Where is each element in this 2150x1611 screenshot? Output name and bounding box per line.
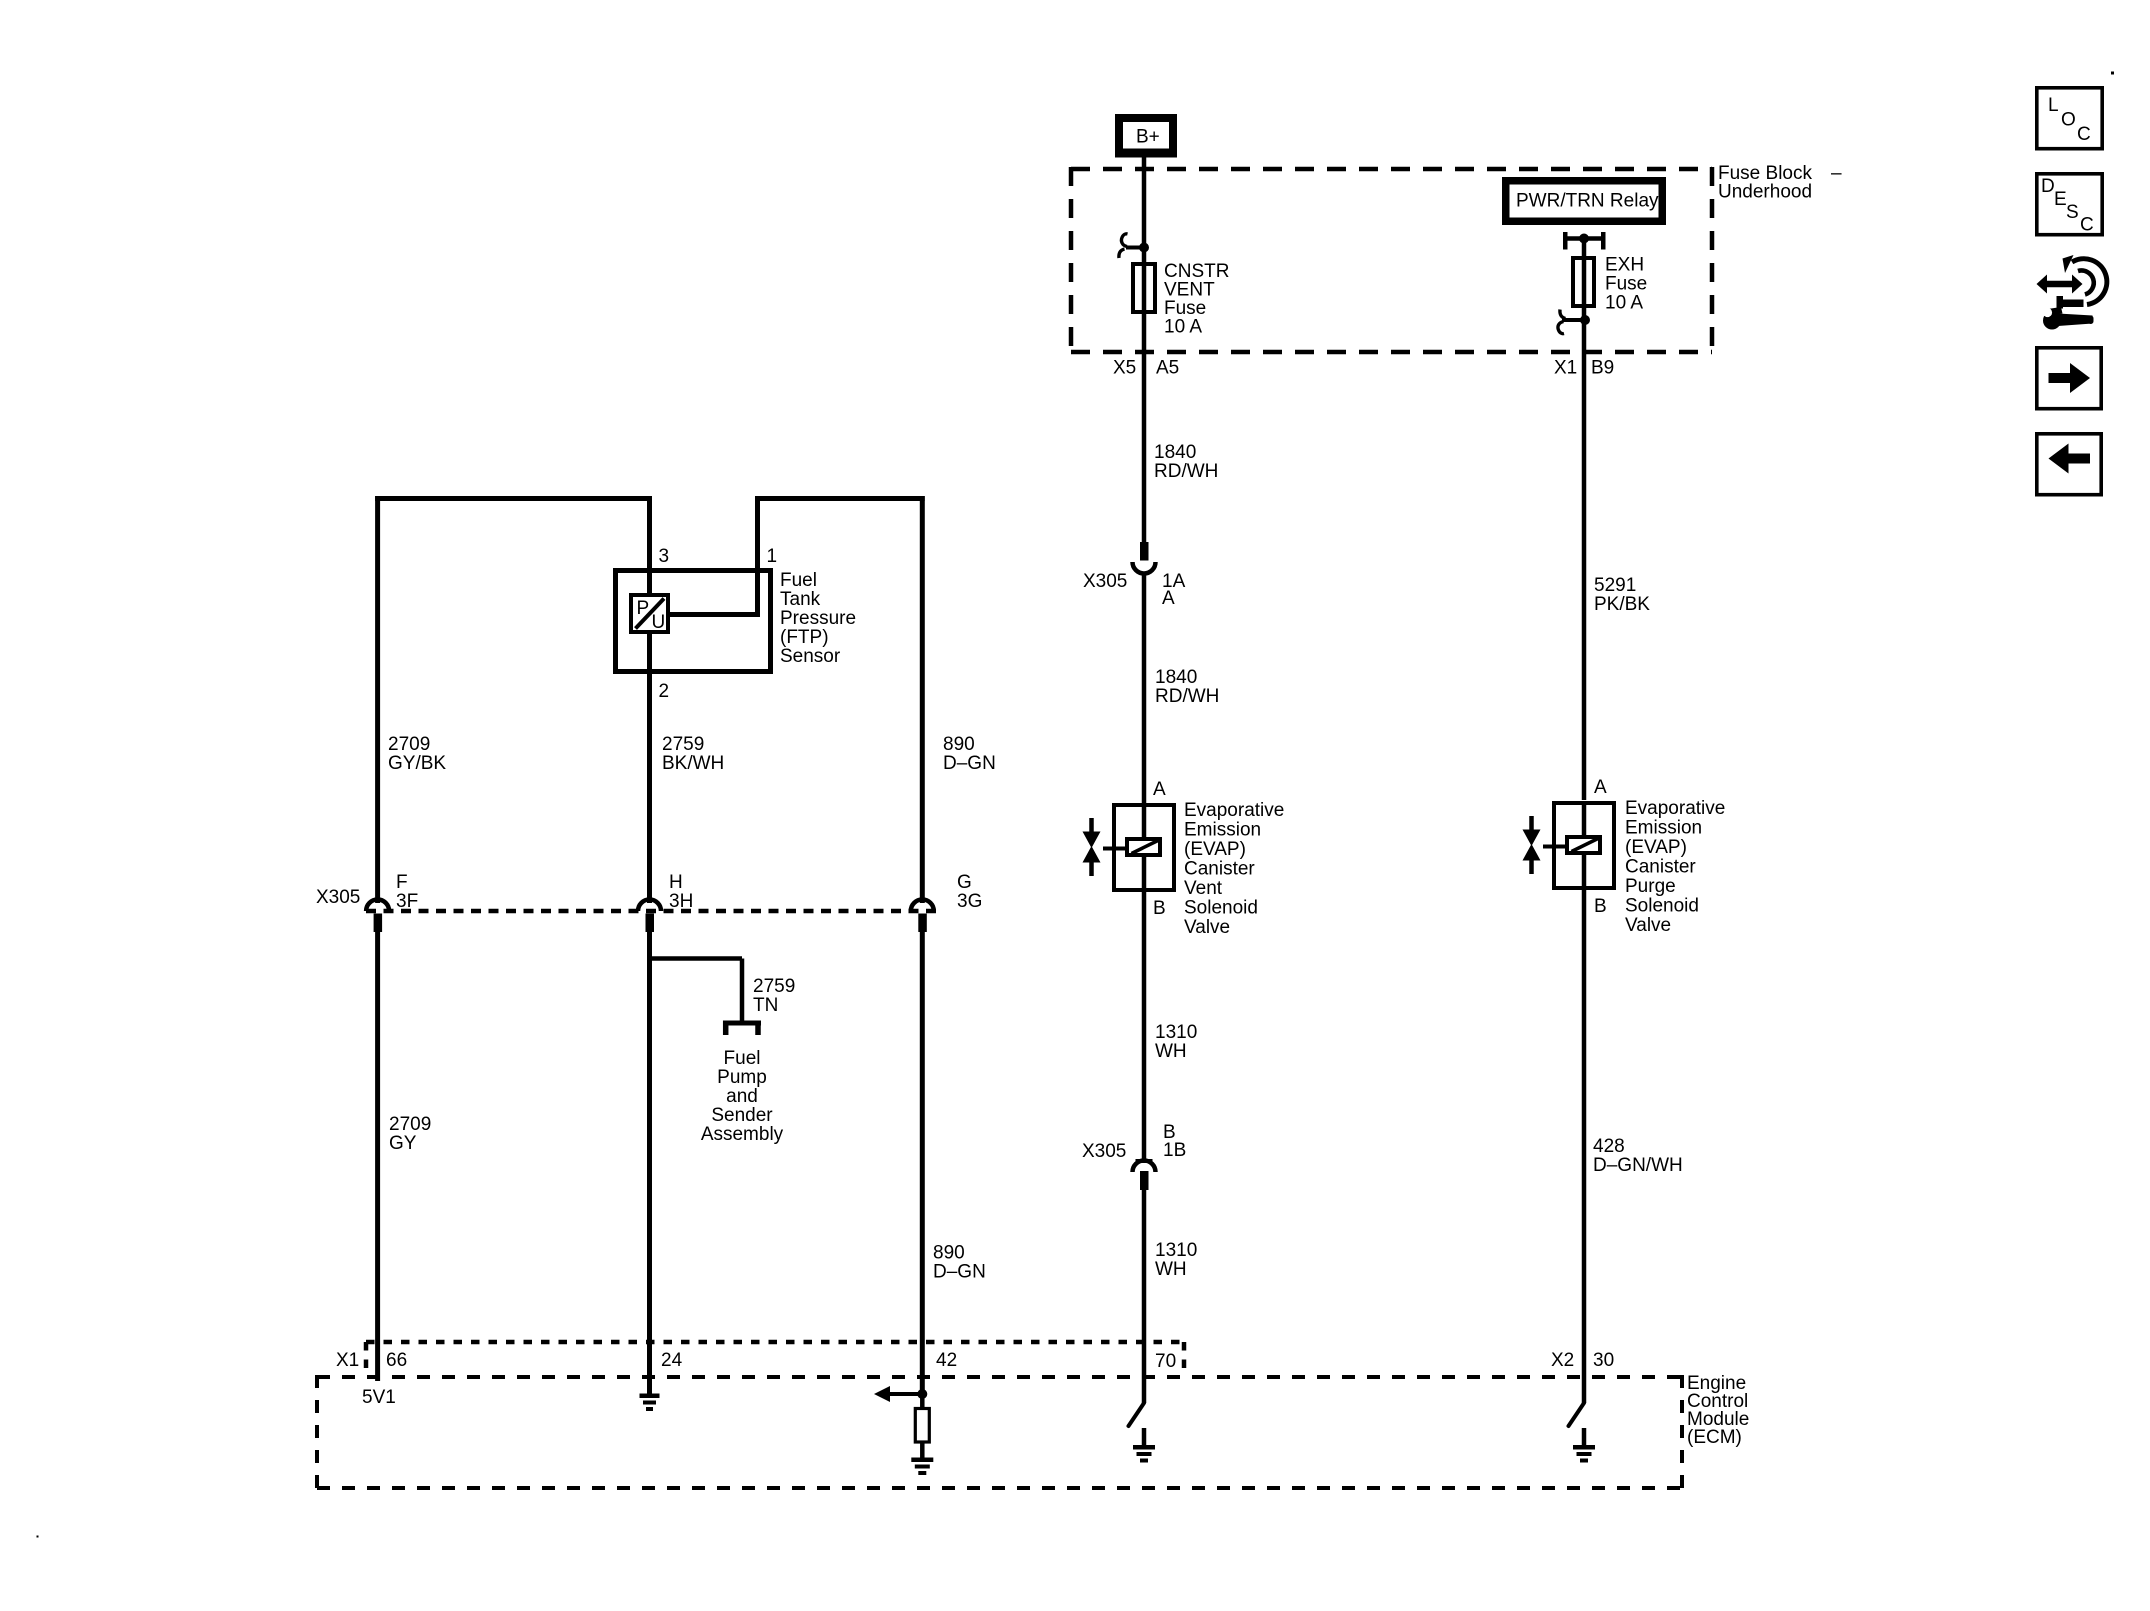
svg-text:X305: X305 — [1083, 571, 1127, 592]
wire label 1840 RD/WH lower — [1155, 667, 1219, 707]
svg-text:L: L — [2048, 95, 2059, 116]
svg-text:2709: 2709 — [389, 1114, 431, 1135]
wire label 5291 PK/BK — [1594, 575, 1650, 615]
label X5 A5 — [1113, 358, 1179, 379]
svg-text:B: B — [1594, 896, 1607, 917]
svg-text:Assembly: Assembly — [701, 1124, 784, 1145]
wire fuse to X5 A5 — [1142, 312, 1147, 542]
svg-text:Evaporative: Evaporative — [1625, 798, 1725, 819]
svg-text:–: – — [1831, 163, 1842, 184]
wire 2709 GY to ECM pin 66 — [375, 932, 380, 1381]
svg-text:Fuel: Fuel — [724, 1048, 761, 1069]
svg-text:Fuel: Fuel — [780, 570, 817, 591]
svg-text:A: A — [1162, 588, 1175, 609]
svg-text:D–GN/WH: D–GN/WH — [1593, 1155, 1683, 1176]
svg-text:B+: B+ — [1136, 127, 1160, 148]
svg-text:Tank: Tank — [780, 589, 821, 610]
svg-text:WH: WH — [1155, 1259, 1187, 1280]
svg-text:1310: 1310 — [1155, 1022, 1197, 1043]
wire top right loop — [755, 496, 925, 903]
wire labels 890 D-GN — [943, 734, 996, 774]
labels X305 1A A — [1083, 571, 1186, 609]
svg-text:428: 428 — [1593, 1136, 1625, 1157]
svg-text:Purge: Purge — [1625, 876, 1676, 897]
wire top left loop — [375, 496, 652, 903]
svg-text:X1: X1 — [336, 1350, 359, 1371]
svg-text:X305: X305 — [1082, 1141, 1126, 1162]
label CNSTR VENT Fuse 10 A — [1164, 261, 1229, 338]
svg-text:B9: B9 — [1591, 358, 1614, 379]
svg-text:Underhood: Underhood — [1718, 182, 1812, 203]
svg-text:10 A: 10 A — [1164, 317, 1202, 338]
svg-text:(ECM): (ECM) — [1687, 1427, 1742, 1448]
wire FTP pin2 down — [647, 671, 652, 903]
svg-text:X2: X2 — [1551, 1350, 1574, 1371]
svg-text:Solenoid: Solenoid — [1625, 896, 1699, 917]
svg-text:C: C — [2077, 124, 2091, 145]
svg-text:D–GN: D–GN — [933, 1262, 986, 1283]
wire label 1840 RD/WH upper — [1154, 442, 1218, 482]
svg-text:G: G — [957, 872, 972, 893]
ground below switch 30 — [1573, 1428, 1595, 1463]
wire labels 890 D-GN lower — [933, 1243, 986, 1283]
svg-text:24: 24 — [661, 1350, 683, 1371]
label Fuse Block - Underhood — [1718, 163, 1842, 203]
svg-text:66: 66 — [386, 1350, 407, 1371]
fuse EXH 10A — [1573, 258, 1594, 306]
labels X2 30 — [1551, 1350, 1614, 1371]
svg-text:10 A: 10 A — [1605, 293, 1643, 314]
in-line connector X305 1B — [1133, 1159, 1156, 1190]
icon schematic double-arrow with curved arrow and wrench — [2037, 255, 2107, 330]
svg-text:Pressure: Pressure — [780, 608, 856, 629]
svg-text:X5: X5 — [1113, 358, 1136, 379]
svg-text:1840: 1840 — [1155, 667, 1197, 688]
connector X1 dotted line — [366, 1342, 1185, 1377]
wire labels 2759 BK/WH — [662, 734, 724, 774]
wire EXH fuse down, label X1 B9 — [1582, 306, 1587, 800]
svg-text:Solenoid: Solenoid — [1184, 898, 1258, 919]
label Engine Control Module (ECM) — [1687, 1373, 1749, 1448]
wire 2759 BK/WH to ECM pin 24 with branch — [650, 932, 743, 1394]
svg-text:E: E — [2054, 189, 2067, 210]
svg-text:and: and — [726, 1086, 758, 1107]
svg-text:D: D — [2041, 176, 2055, 197]
svg-text:RD/WH: RD/WH — [1155, 686, 1219, 707]
svg-text:Canister: Canister — [1184, 859, 1255, 880]
svg-text:5291: 5291 — [1594, 575, 1636, 596]
ground below switch 70 — [1133, 1428, 1155, 1463]
label Fuel Tank Pressure (FTP) Sensor — [780, 570, 856, 667]
svg-text:U: U — [652, 612, 666, 633]
svg-text:5V1: 5V1 — [362, 1387, 396, 1408]
svg-text:Pump: Pump — [717, 1067, 767, 1088]
ECM dashed box — [317, 1375, 1682, 1490]
svg-text:70: 70 — [1155, 1351, 1176, 1372]
svg-text:D–GN: D–GN — [943, 753, 996, 774]
svg-text:3G: 3G — [957, 891, 982, 912]
fuse block underhood dashed box — [1071, 167, 1712, 354]
labels X305 B 1B — [1082, 1122, 1186, 1162]
FTP sensor box — [616, 571, 771, 672]
svg-text:(EVAP): (EVAP) — [1184, 839, 1246, 860]
label EXH Fuse 10 A — [1605, 255, 1647, 314]
wire label 428 D-GN/WH — [1593, 1136, 1683, 1176]
wire 890 D-GN to ECM pin 42 — [920, 932, 925, 1394]
svg-text:P: P — [637, 598, 650, 619]
svg-text:3: 3 — [659, 546, 670, 567]
bus hook junction below EXH fuse — [1558, 310, 1590, 334]
svg-text:3F: 3F — [396, 891, 418, 912]
icon forward arrow box — [2037, 348, 2101, 409]
in-line connector X305 1A — [1133, 542, 1156, 574]
svg-text:Vent: Vent — [1184, 878, 1223, 899]
svg-text:S: S — [2066, 202, 2079, 223]
svg-text:Valve: Valve — [1625, 915, 1671, 936]
svg-text:Valve: Valve — [1184, 917, 1230, 938]
wire X305 to vent solenoid — [1142, 574, 1147, 806]
svg-text:1B: 1B — [1163, 1140, 1186, 1161]
svg-text:1840: 1840 — [1154, 442, 1196, 463]
wire label 1310 WH upper — [1155, 1022, 1197, 1062]
icon DESC box — [2037, 174, 2102, 236]
junction arrow at ECM pin 42 — [874, 1386, 927, 1402]
wire vent solenoid down — [1142, 890, 1147, 1159]
label Evaporative Emission (EVAP) Canister Vent Solenoid Valve — [1184, 800, 1284, 938]
svg-text:Sender: Sender — [711, 1105, 773, 1126]
ECM pin numbers 66 24 42 70 — [386, 1350, 1176, 1372]
wire B+ into fuse block — [1142, 155, 1147, 245]
svg-text:2759: 2759 — [662, 734, 704, 755]
label Fuel Pump and Sender Assembly — [701, 1048, 784, 1145]
svg-text:Sensor: Sensor — [780, 646, 841, 667]
fuse CNSTR VENT 10A — [1133, 247, 1155, 312]
svg-text:1310: 1310 — [1155, 1240, 1197, 1261]
svg-text:GY: GY — [389, 1133, 417, 1154]
ground below resistor — [911, 1458, 933, 1476]
svg-text:A: A — [1153, 779, 1166, 800]
svg-text:(FTP): (FTP) — [780, 627, 829, 648]
svg-text:GY/BK: GY/BK — [388, 753, 446, 774]
connector terminal G 3G — [911, 872, 983, 932]
svg-text:Fuse: Fuse — [1605, 274, 1647, 295]
svg-text:TN: TN — [753, 995, 778, 1016]
svg-text:EXH: EXH — [1605, 255, 1644, 276]
svg-text:O: O — [2061, 110, 2076, 131]
svg-text:A: A — [1594, 777, 1607, 798]
connector X305 dashed row — [366, 909, 936, 914]
connector terminal H 3H — [638, 872, 693, 932]
icon back arrow box — [2037, 434, 2101, 495]
svg-text:890: 890 — [933, 1243, 965, 1264]
svg-text:RD/WH: RD/WH — [1154, 461, 1218, 482]
svg-text:X1: X1 — [1554, 358, 1577, 379]
PWR/TRN Relay box — [1502, 177, 1666, 225]
EVAP canister purge solenoid valve — [1523, 777, 1615, 917]
pin labels 3 1 — [659, 546, 778, 567]
svg-text:Emission: Emission — [1184, 820, 1261, 841]
svg-text:2759: 2759 — [753, 976, 795, 997]
relay output terminal bracket — [1563, 232, 1606, 250]
bus hook junction above CNSTR VENT fuse — [1119, 234, 1149, 258]
wire labels 2709 GY/BK — [388, 734, 446, 774]
svg-text:WH: WH — [1155, 1041, 1187, 1062]
svg-text:3H: 3H — [669, 891, 693, 912]
svg-text:PK/BK: PK/BK — [1594, 594, 1650, 615]
svg-text:2709: 2709 — [388, 734, 430, 755]
switch at ECM pin 70 — [1129, 1403, 1145, 1426]
wire purge solenoid to ECM pin 30 — [1582, 888, 1587, 1403]
svg-text:1: 1 — [767, 546, 778, 567]
icon LOC box — [2037, 88, 2102, 149]
svg-text:(EVAP): (EVAP) — [1625, 837, 1687, 858]
svg-text:890: 890 — [943, 734, 975, 755]
switch at ECM pin 30 — [1569, 1403, 1585, 1426]
svg-text:PWR/TRN Relay: PWR/TRN Relay — [1516, 191, 1659, 212]
wire label 1310 WH lower — [1155, 1240, 1197, 1280]
EVAP canister vent solenoid valve — [1083, 779, 1175, 919]
wire X305 1B to ECM pin 70 — [1142, 1190, 1147, 1403]
svg-text:2: 2 — [659, 681, 670, 702]
label Evaporative Emission (EVAP) Canister Purge Solenoid Valve — [1625, 798, 1725, 936]
wire labels 2709 GY — [389, 1114, 431, 1154]
svg-text:H: H — [669, 872, 683, 893]
wire label 2759 TN — [753, 976, 795, 1016]
svg-text:BK/WH: BK/WH — [662, 753, 724, 774]
svg-text:30: 30 — [1593, 1350, 1614, 1371]
svg-text:Emission: Emission — [1625, 818, 1702, 839]
svg-text:Evaporative: Evaporative — [1184, 800, 1284, 821]
wire relay to EXH fuse — [1582, 238, 1587, 258]
svg-text:42: 42 — [936, 1350, 957, 1371]
power feed B+ box — [1115, 114, 1177, 158]
svg-text:C: C — [2080, 215, 2094, 236]
fuel pump and sender assembly terminal — [723, 1021, 761, 1036]
FTP pressure transducer P/U symbol — [631, 595, 668, 633]
svg-text:A5: A5 — [1156, 358, 1179, 379]
svg-text:F: F — [396, 872, 408, 893]
svg-text:Canister: Canister — [1625, 857, 1696, 878]
svg-text:B: B — [1153, 898, 1166, 919]
svg-text:X305: X305 — [316, 887, 360, 908]
connector terminal F 3F — [366, 872, 418, 932]
ground at ECM pin 24 — [640, 1394, 660, 1412]
resistor inside ECM — [915, 1394, 929, 1458]
